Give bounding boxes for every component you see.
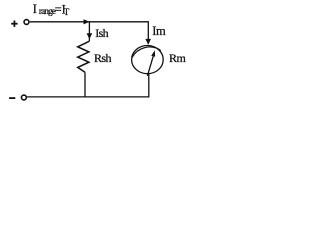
arrow current IT on top wire bbox=[84, 19, 90, 24]
wire branch down to resistor with node junction bbox=[88, 22, 90, 42]
wire meter branch corner down bbox=[147, 21, 149, 40]
terminal minus sign bbox=[9, 97, 15, 99]
svg-text:T: T bbox=[64, 7, 70, 17]
svg-text:Rsh: Rsh bbox=[94, 51, 111, 65]
top terminal circle bbox=[24, 20, 29, 25]
meter Rm body circle bbox=[132, 46, 164, 74]
wire resistor bottom lead bbox=[84, 72, 86, 97]
bottom terminal circle bbox=[21, 95, 26, 100]
svg-text:I: I bbox=[33, 2, 37, 16]
terminal plus sign bbox=[11, 21, 17, 27]
arrow current Im bbox=[145, 39, 151, 45]
wire top horizontal bbox=[30, 21, 149, 23]
svg-text:Im: Im bbox=[152, 24, 166, 38]
svg-text:range: range bbox=[39, 6, 56, 16]
meter needle bbox=[147, 56, 153, 76]
resistor Rsh zigzag bbox=[78, 41, 90, 72]
wire meter bottom lead bbox=[148, 74, 150, 97]
svg-text:Ish: Ish bbox=[95, 26, 108, 40]
svg-text:Rm: Rm bbox=[169, 51, 187, 65]
wire bottom horizontal bbox=[27, 96, 149, 98]
meter needle arrowhead bbox=[151, 50, 155, 57]
arrow current Ish bbox=[87, 33, 93, 39]
meter scale arc bbox=[132, 47, 161, 58]
